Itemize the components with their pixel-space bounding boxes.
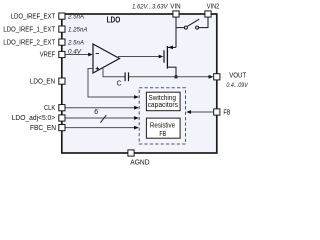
op-amp U1 [93,44,120,73]
svg-text:2.5nA: 2.5nA [67,39,84,46]
pin CLK [59,105,65,111]
svg-text:Switching: Switching [148,95,176,102]
svg-text:FB: FB [223,110,230,117]
svg-text:C: C [117,81,122,88]
svg-text:VOUT: VOUT [229,72,247,79]
drain lead with arrow into channel [168,46,176,48]
svg-text:VIN2: VIN2 [207,4,220,11]
pin FBC_EN [59,125,65,131]
arrowhead into minus input [88,53,93,57]
wire VREF to op-amp minus input [65,54,90,56]
pin FB [214,109,220,115]
wire cap line left of capacitor [103,76,125,78]
svg-text:FB: FB [159,131,166,138]
wire op-amp output to gate [118,56,161,58]
svg-text:LDO_IREF_EXT: LDO_IREF_EXT [11,13,56,20]
pin AGND [128,150,134,156]
svg-text:AGND: AGND [130,159,149,166]
pin LDO_EN [59,78,65,84]
resistive FB box [146,118,180,138]
LDO block body [62,14,217,153]
bus slash [101,115,107,123]
wire CLK [65,107,136,109]
pin LDO_adj [59,115,65,121]
svg-text:LDO: LDO [107,14,121,24]
svg-text:1.62V...3.63V: 1.62V...3.63V [132,4,168,11]
svg-text:LDO_adj<5:0>: LDO_adj<5:0> [12,115,56,122]
pin LDO_IREF_EXT [59,13,65,19]
wire FB pin into fb network [190,111,214,113]
switch S1 left contact [184,26,187,29]
plus sign [96,68,99,70]
svg-text:capacitors: capacitors [148,102,179,109]
wire plus input feedback to switching caps [88,69,136,98]
pin VIN [173,11,179,17]
svg-text:LDO_IREF_2_EXT: LDO_IREF_2_EXT [3,39,56,46]
switch blade [188,19,200,26]
svg-text:VIN: VIN [170,4,180,11]
drain vertical to VIN rail [175,17,177,48]
svg-text:VREF: VREF [40,52,56,59]
svg-text:CLK: CLK [44,105,56,112]
pin VIN2 [205,11,211,17]
svg-text:1.25nA: 1.25nA [68,26,88,33]
wire switch to VIN line [176,27,184,29]
dashed feedback network box [139,88,185,144]
capacitor C plates [124,72,126,81]
source lead [168,67,176,77]
transistor Q1 gate bar [163,50,165,62]
pin VREF [59,51,65,57]
pin LDO_IREF_1_EXT [59,26,65,32]
transistor Q1 channel bar [166,46,168,69]
wire VIN2 drop and to switch [199,17,208,28]
wire LDO_adj bus [65,117,136,119]
switching capacitors box [146,92,180,111]
svg-text:0.4...09V: 0.4...09V [226,82,248,89]
wire output node to VOUT pin [129,76,210,78]
pin LDO_IREF_2_EXT [59,39,65,45]
svg-text:2.5nA: 2.5nA [67,13,84,20]
junction dot at output node [174,75,177,78]
arrowhead into gate [159,55,164,59]
pin VOUT [214,74,220,80]
svg-text:Resistive: Resistive [150,123,175,130]
svg-text:FBC_EN: FBC_EN [30,125,56,132]
svg-text:LDO_IREF_1_EXT: LDO_IREF_1_EXT [3,26,56,33]
svg-text:LDO_EN: LDO_EN [30,79,55,86]
svg-text:6: 6 [94,109,98,116]
switch S1 right contact [196,26,199,29]
arrowhead into VOUT [209,75,214,79]
wire compensation stub from op-amp to cap line [102,68,104,77]
svg-text:0.4V: 0.4V [68,49,82,56]
minus sign [96,53,99,55]
wire FBC_EN [65,127,136,129]
